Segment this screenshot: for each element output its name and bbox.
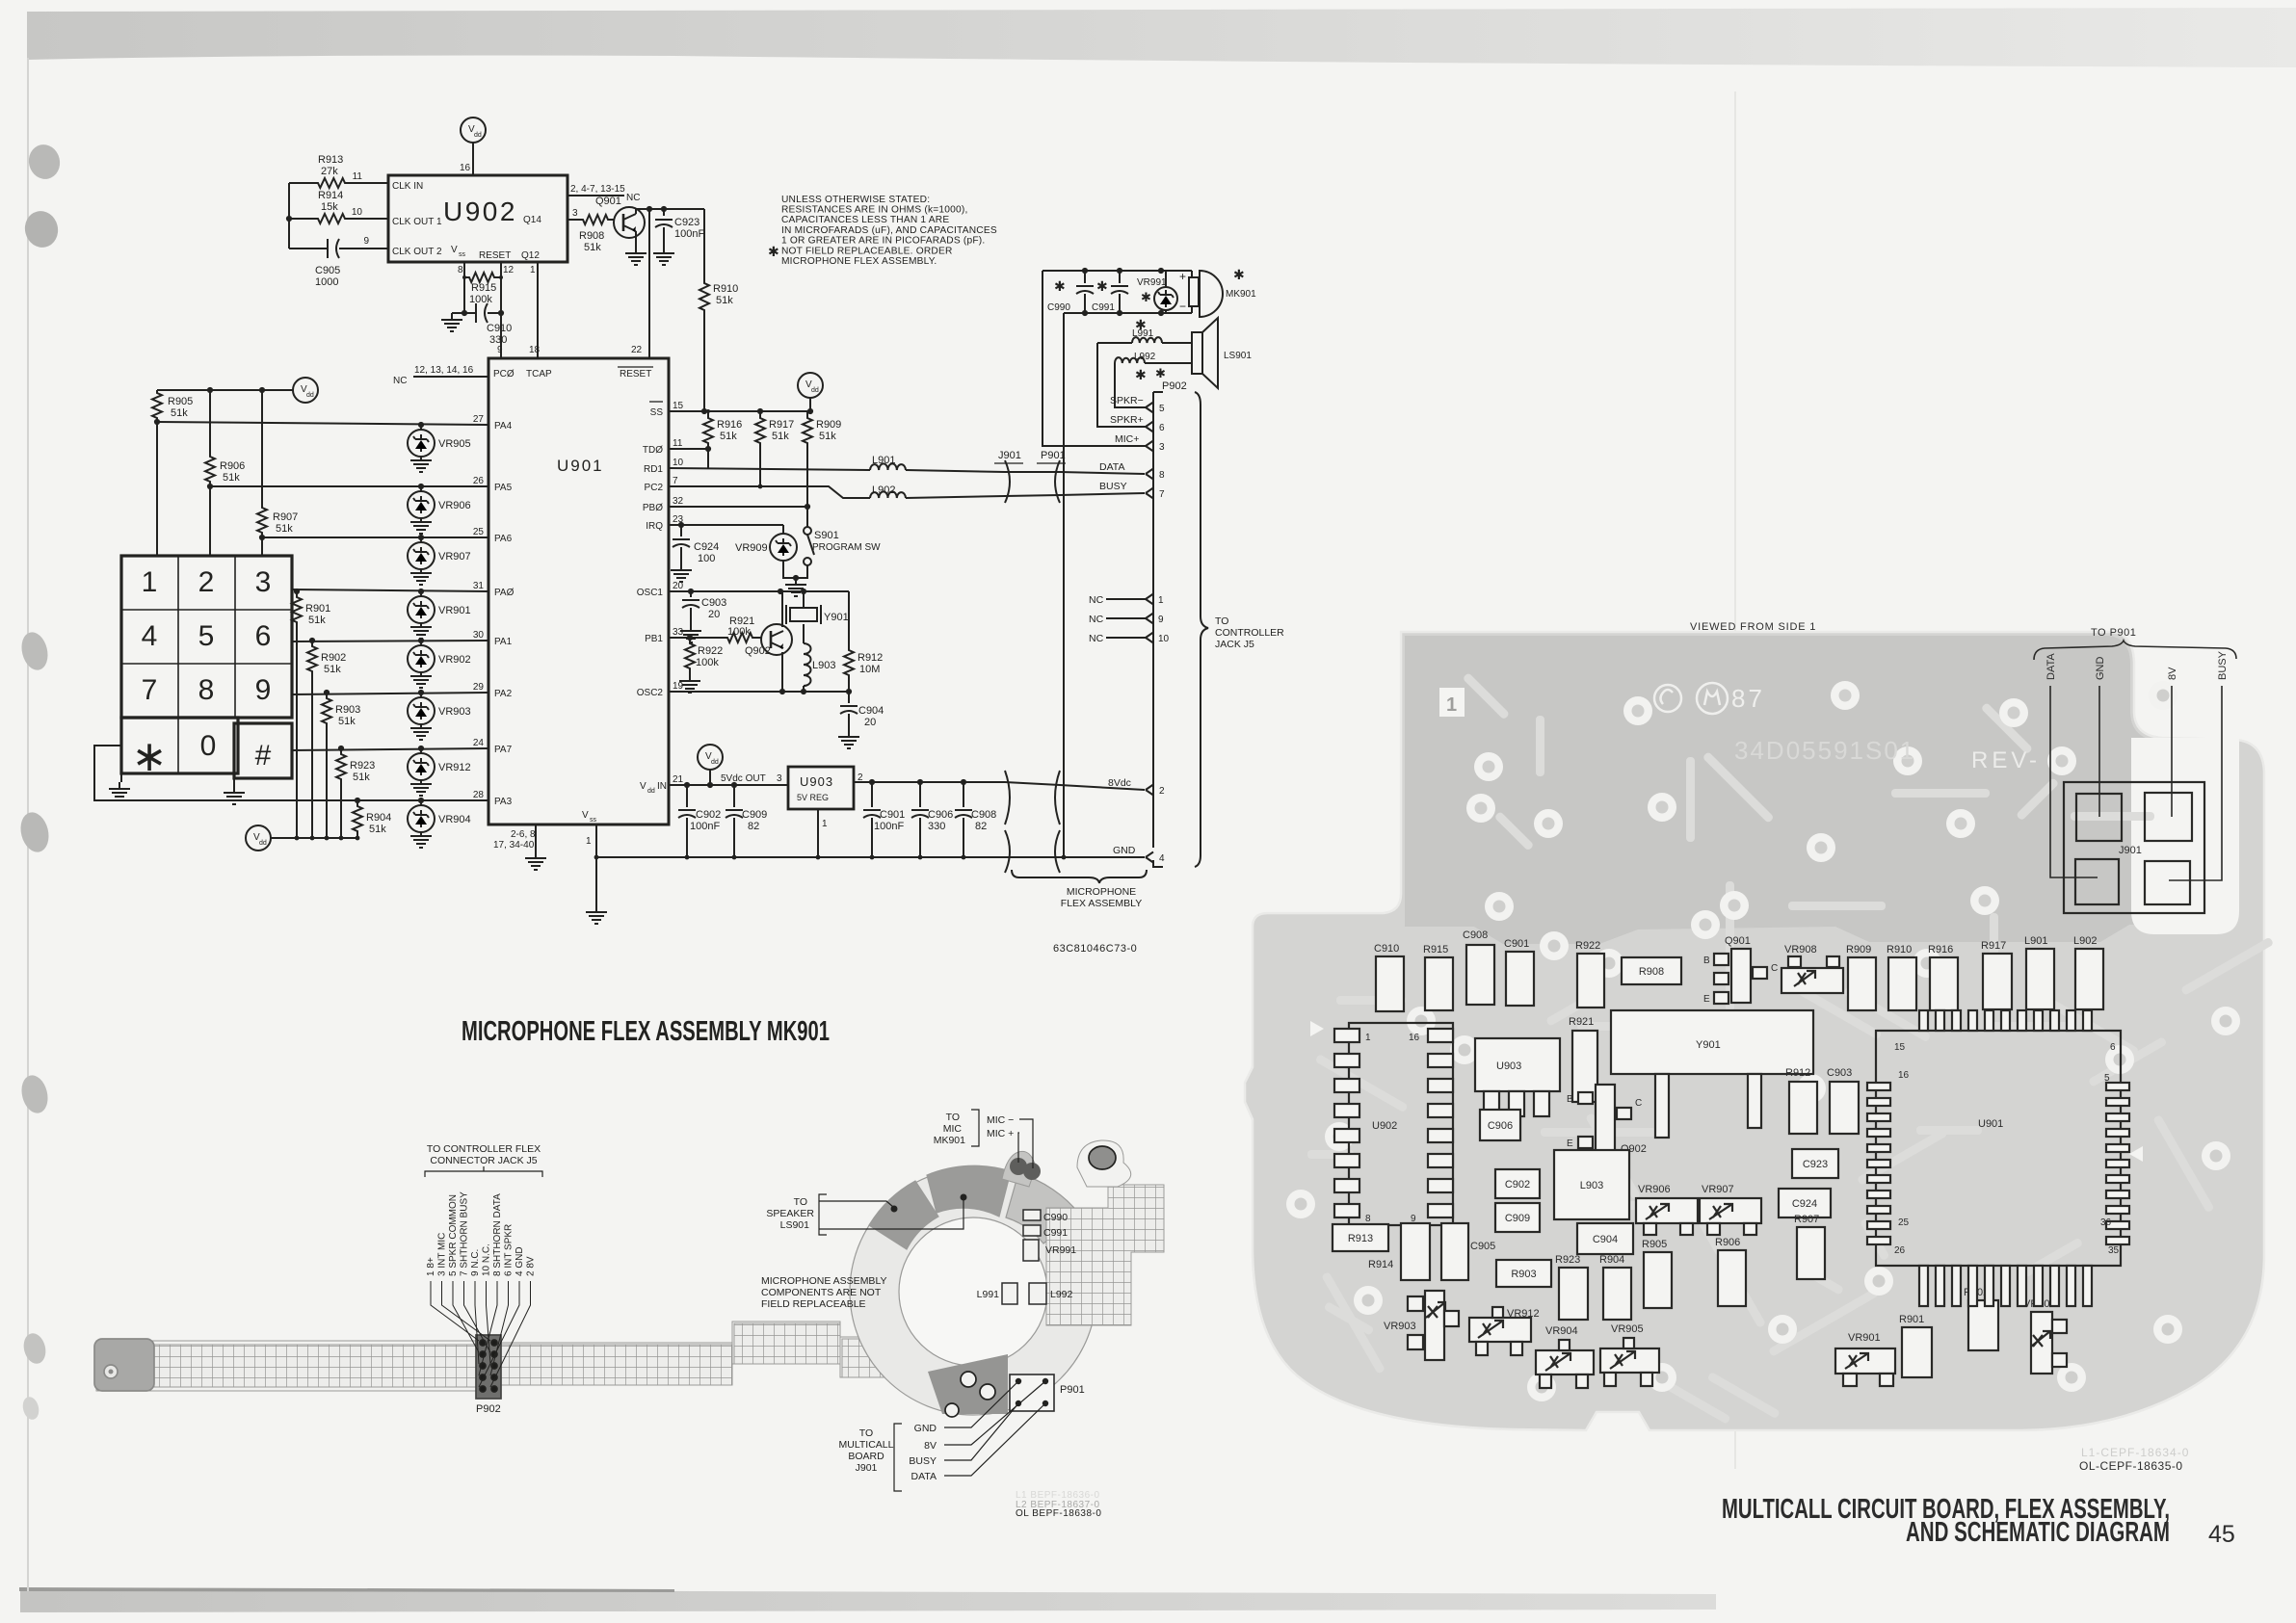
svg-text:15: 15 — [1894, 1042, 1906, 1053]
svg-text:P902: P902 — [1162, 380, 1187, 392]
PCB part R904 — [1603, 1268, 1631, 1320]
svg-text:51k: 51k — [353, 772, 370, 783]
svg-text:✱: ✱ — [1233, 267, 1245, 282]
svg-text:17, 34-40: 17, 34-40 — [493, 840, 535, 851]
svg-text:J901: J901 — [2119, 845, 2142, 856]
PCB part R915 — [1425, 957, 1453, 1010]
svg-text:R909: R909 — [1846, 944, 1871, 955]
svg-text:NOT FIELD REPLACEABLE. ORDER: NOT FIELD REPLACEABLE. ORDER — [781, 247, 953, 257]
svg-text:C902: C902 — [1505, 1179, 1530, 1191]
svg-text:51k: 51k — [819, 431, 836, 442]
svg-text:NC: NC — [393, 376, 407, 386]
svg-text:25: 25 — [473, 527, 485, 537]
PCB marker triangle left — [1310, 1021, 1324, 1036]
resistor R901 — [292, 591, 302, 838]
svg-text:C904: C904 — [1593, 1234, 1618, 1245]
PCB part R907 — [1797, 1227, 1825, 1279]
power Vdd keypad top — [293, 378, 318, 403]
svg-text:TDØ: TDØ — [643, 445, 663, 456]
svg-text:R913: R913 — [318, 154, 343, 166]
J901 white pocket — [2131, 738, 2239, 934]
svg-text:BUSY: BUSY — [1099, 481, 1127, 492]
svg-text:45: 45 — [2208, 1521, 2235, 1548]
svg-text:SPKR−: SPKR− — [1110, 395, 1144, 406]
svg-text:PC2: PC2 — [645, 483, 664, 493]
svg-text:CONTROLLER: CONTROLLER — [1215, 627, 1284, 639]
svg-text:✱: ✱ — [1054, 278, 1066, 294]
svg-text:0: 0 — [200, 730, 217, 762]
svg-text:C906: C906 — [1488, 1120, 1513, 1132]
svg-text:#: # — [255, 740, 272, 772]
PCB crystal Y901 footprint — [1611, 1010, 1813, 1074]
svg-text:L991: L991 — [977, 1289, 1000, 1300]
svg-text:ss: ss — [590, 817, 597, 824]
svg-text:VR903: VR903 — [1384, 1321, 1416, 1332]
svg-text:100: 100 — [698, 553, 715, 564]
svg-text:8V: 8V — [924, 1440, 937, 1452]
svg-text:E: E — [1703, 994, 1710, 1005]
ground at Q901 emitter — [625, 247, 647, 265]
key hash — [234, 723, 292, 778]
wire TD0 — [669, 448, 708, 450]
PCB part C905 — [1441, 1223, 1468, 1280]
svg-text:GND: GND — [2095, 657, 2106, 681]
PCB part VR903 — [1425, 1291, 1444, 1360]
PCB part C923 — [1792, 1149, 1838, 1178]
PCB part VR912 — [1469, 1318, 1531, 1342]
wire OSC1 — [669, 590, 849, 592]
svg-text:VR909: VR909 — [735, 542, 768, 554]
svg-text:MIC −: MIC − — [987, 1114, 1014, 1126]
svg-text:CONNECTOR JACK J5: CONNECTOR JACK J5 — [430, 1155, 537, 1166]
PCB part VR901 — [1835, 1348, 1895, 1374]
svg-text:PROGRAM SW: PROGRAM SW — [812, 542, 881, 553]
svg-text:51k: 51k — [584, 242, 601, 253]
wire SS — [669, 410, 810, 412]
PCB part R913 — [1333, 1224, 1388, 1251]
svg-text:5V REG: 5V REG — [797, 793, 829, 802]
svg-text:C910: C910 — [1374, 943, 1399, 955]
svg-text:PBØ: PBØ — [643, 503, 663, 513]
svg-text:PA6: PA6 — [494, 534, 513, 544]
PCB marker triangle right — [2129, 1146, 2143, 1162]
svg-text:dd: dd — [306, 392, 314, 399]
PCB part R910 — [1888, 957, 1916, 1010]
svg-text:L1-CEPF-18634-0: L1-CEPF-18634-0 — [2081, 1446, 2189, 1459]
diode VR902 — [420, 641, 422, 645]
svg-text:L992: L992 — [1050, 1289, 1073, 1300]
flex ribbon body — [96, 1322, 939, 1391]
svg-text:BOARD: BOARD — [848, 1451, 884, 1462]
diode VR912 — [420, 748, 422, 753]
svg-text:7: 7 — [1159, 489, 1165, 500]
svg-text:BUSY: BUSY — [909, 1455, 937, 1467]
svg-text:VR905: VR905 — [1611, 1323, 1644, 1335]
svg-text:∗: ∗ — [132, 733, 168, 780]
svg-text:PA4: PA4 — [494, 421, 513, 432]
svg-text:RESISTANCES ARE IN OHMS (k=100: RESISTANCES ARE IN OHMS (k=1000), — [781, 205, 968, 216]
wire RESET line from Q901 to U901 pin 22 — [648, 209, 650, 358]
svg-text:U902: U902 — [443, 196, 517, 226]
svg-text:MICROPHONE FLEX ASSEMBLY MK901: MICROPHONE FLEX ASSEMBLY MK901 — [462, 1016, 830, 1047]
svg-text:DATA: DATA — [2045, 653, 2057, 680]
svg-text:PA7: PA7 — [494, 745, 513, 755]
svg-text:10: 10 — [1158, 634, 1170, 644]
svg-text:OSC2: OSC2 — [637, 688, 664, 698]
ground at C910 — [452, 312, 464, 314]
svg-text:1: 1 — [586, 836, 592, 847]
svg-text:9: 9 — [497, 345, 503, 355]
wire PA1 — [292, 641, 488, 641]
svg-text:R910: R910 — [713, 283, 738, 295]
svg-text:PA1: PA1 — [494, 637, 513, 647]
svg-text:VR903: VR903 — [438, 706, 471, 718]
svg-text:R915: R915 — [1423, 944, 1448, 955]
ground below key hash — [233, 778, 235, 786]
svg-text:C908: C908 — [971, 809, 996, 821]
wire OSC2 — [669, 691, 849, 693]
diode VR901 — [420, 591, 422, 596]
wire mic plus node — [1042, 270, 1192, 272]
microphone MK901 — [1191, 271, 1193, 313]
svg-text:CAPACITANCES LESS THAN 1 ARE: CAPACITANCES LESS THAN 1 ARE — [781, 215, 949, 225]
svg-text:C923: C923 — [1803, 1159, 1828, 1170]
diode VR907 — [420, 537, 422, 542]
svg-text:dd: dd — [647, 788, 655, 795]
svg-text:VR904: VR904 — [438, 814, 471, 825]
svg-text:10M: 10M — [859, 664, 880, 675]
svg-text:S901: S901 — [814, 530, 839, 541]
svg-text:C909: C909 — [1505, 1213, 1530, 1224]
PCB part R917 — [1983, 954, 2012, 1009]
svg-text:6: 6 — [2110, 1042, 2116, 1053]
PCB part R906 — [1718, 1250, 1746, 1306]
svg-text:MICROPHONE: MICROPHONE — [1067, 886, 1136, 898]
svg-text:R901: R901 — [305, 603, 330, 615]
svg-text:VR906: VR906 — [438, 500, 471, 511]
keypad matrix — [121, 556, 292, 718]
svg-text:51k: 51k — [223, 472, 240, 484]
svg-text:V: V — [640, 781, 647, 792]
svg-text:330: 330 — [928, 821, 945, 832]
svg-text:CLK OUT 2: CLK OUT 2 — [392, 247, 442, 257]
svg-text:1: 1 — [822, 819, 828, 829]
svg-text:VR907: VR907 — [1702, 1184, 1734, 1195]
svg-text:C991: C991 — [1043, 1227, 1068, 1239]
svg-text:51k: 51k — [338, 716, 356, 727]
brace TO CONTROLLER JACK J5 — [1195, 392, 1208, 867]
svg-text:5: 5 — [198, 620, 215, 652]
svg-text:Q14: Q14 — [523, 215, 541, 225]
svg-text:1 OR GREATER ARE IN PICOFARADS: 1 OR GREATER ARE IN PICOFARADS (pF). — [781, 235, 985, 246]
PCB copyright Motorola 87 — [1654, 683, 1728, 714]
svg-text:VR908: VR908 — [1784, 944, 1817, 955]
wire IRQ — [669, 524, 783, 526]
PCB part R903 — [1496, 1260, 1551, 1287]
svg-text:100k: 100k — [469, 294, 492, 305]
PCB part C908 — [1466, 945, 1494, 1005]
svg-text:U901: U901 — [557, 457, 604, 475]
svg-text:C991: C991 — [1092, 302, 1115, 313]
svg-text:U903: U903 — [1496, 1060, 1521, 1072]
wire left bus of U902 — [288, 183, 290, 249]
svg-text:5Vdc OUT: 5Vdc OUT — [721, 773, 766, 784]
svg-text:ss: ss — [459, 251, 466, 258]
svg-text:IN MICROFARADS (uF), AND CAPAC: IN MICROFARADS (uF), AND CAPACITANCES — [781, 225, 997, 236]
svg-text:Q901: Q901 — [1725, 935, 1751, 947]
svg-text:1: 1 — [1365, 1033, 1371, 1043]
PCB part R916 — [1930, 957, 1958, 1010]
svg-text:LS901: LS901 — [780, 1219, 810, 1231]
svg-text:100nF: 100nF — [690, 821, 720, 832]
svg-text:C990: C990 — [1043, 1212, 1068, 1223]
svg-text:Q12: Q12 — [521, 250, 540, 261]
svg-text:DATA: DATA — [911, 1471, 937, 1482]
svg-text:VR904: VR904 — [1545, 1325, 1578, 1337]
resistor R904 — [353, 800, 362, 838]
PCB part VR905 — [1600, 1348, 1659, 1373]
wire 8Vdc output — [854, 782, 1145, 790]
PCB part VR907 — [1700, 1198, 1761, 1223]
wire Q901 collector node — [636, 208, 704, 210]
svg-text:R909: R909 — [816, 419, 841, 431]
svg-text:PA5: PA5 — [494, 483, 513, 493]
svg-text:MK901: MK901 — [934, 1135, 965, 1146]
PCB part R909 — [1848, 957, 1876, 1010]
svg-text:5 SPKR COMMON: 5 SPKR COMMON — [448, 1194, 459, 1276]
PCB part R902 — [1968, 1300, 1998, 1350]
PCB part L902 — [2075, 949, 2103, 1009]
svg-text:VR901: VR901 — [1848, 1332, 1881, 1344]
svg-text:10 N.C.: 10 N.C. — [482, 1243, 492, 1276]
svg-text:7: 7 — [142, 674, 158, 706]
svg-text:C924: C924 — [694, 541, 719, 553]
PCB IC U903 footprint — [1475, 1038, 1560, 1091]
svg-text:51k: 51k — [171, 407, 188, 419]
svg-text:J901: J901 — [856, 1462, 878, 1474]
connector P901 flex — [1010, 1374, 1054, 1411]
svg-text:32: 32 — [673, 496, 684, 507]
inductor L991 flex — [1002, 1283, 1017, 1304]
svg-text:SPEAKER: SPEAKER — [766, 1208, 814, 1219]
svg-text:✱: ✱ — [1135, 367, 1147, 382]
flex top right lobe — [1077, 1140, 1131, 1187]
svg-text:51k: 51k — [772, 431, 789, 442]
svg-text:R910: R910 — [1887, 944, 1912, 955]
svg-text:2-6, 8: 2-6, 8 — [511, 829, 536, 840]
svg-text:19: 19 — [673, 681, 684, 692]
svg-text:35: 35 — [2108, 1245, 2120, 1256]
svg-text:24: 24 — [473, 738, 485, 748]
PCB part L901 — [2026, 949, 2054, 1009]
svg-text:TO CONTROLLER FLEX: TO CONTROLLER FLEX — [427, 1143, 541, 1155]
svg-text:R915: R915 — [471, 282, 496, 294]
svg-text:8: 8 — [1159, 470, 1165, 481]
power Vdd above SS — [798, 373, 823, 398]
svg-text:DATA: DATA — [1099, 461, 1124, 473]
wire Vdd IN — [669, 784, 788, 786]
PCB connector J901 — [2064, 782, 2204, 913]
svg-text:B: B — [1703, 955, 1710, 966]
svg-text:dd: dd — [259, 840, 267, 847]
svg-text:1000: 1000 — [315, 276, 338, 288]
svg-text:29: 29 — [473, 682, 485, 693]
svg-text:3: 3 — [255, 566, 272, 598]
svg-text:C: C — [1771, 963, 1778, 974]
svg-text:C904: C904 — [858, 705, 884, 717]
svg-text:1: 1 — [530, 265, 536, 275]
svg-text:SS: SS — [650, 407, 664, 418]
svg-text:Y901: Y901 — [1696, 1039, 1721, 1051]
svg-text:SPKR+: SPKR+ — [1110, 414, 1144, 426]
PCB trace texture — [1307, 672, 2274, 1425]
flex speaker ring — [850, 1165, 1096, 1415]
PCB part R908 — [1622, 957, 1681, 984]
svg-text:51k: 51k — [369, 824, 386, 835]
svg-text:Y901: Y901 — [824, 612, 849, 623]
svg-text:9: 9 — [363, 236, 369, 247]
svg-text:8: 8 — [1365, 1214, 1371, 1224]
wire MIC+ to P902 pin 3 — [1042, 271, 1147, 446]
svg-text:PA3: PA3 — [494, 797, 513, 807]
svg-text:R912: R912 — [858, 652, 883, 664]
svg-text:C903: C903 — [1827, 1067, 1852, 1079]
svg-text:C990: C990 — [1047, 302, 1070, 313]
svg-text:VR991: VR991 — [1137, 277, 1167, 288]
svg-text:8 SHTHORN DATA: 8 SHTHORN DATA — [492, 1193, 503, 1276]
svg-text:11: 11 — [353, 171, 363, 182]
PCB part C901 — [1506, 952, 1534, 1006]
svg-text:R913: R913 — [1348, 1233, 1373, 1244]
svg-text:OL-CEPF-18635-0: OL-CEPF-18635-0 — [2079, 1459, 2183, 1473]
svg-text:16: 16 — [460, 163, 471, 173]
svg-text:3: 3 — [777, 773, 782, 784]
wire U902 pin12 to U901 pin 9 — [500, 313, 502, 358]
svg-text:VR901: VR901 — [438, 605, 471, 616]
svg-text:P901: P901 — [1041, 450, 1066, 461]
svg-text:V: V — [582, 810, 589, 821]
svg-text:J901: J901 — [998, 450, 1021, 461]
svg-text:V: V — [451, 245, 458, 255]
svg-text:R916: R916 — [717, 419, 742, 431]
svg-text:E: E — [1567, 1139, 1573, 1149]
svg-text:12: 12 — [503, 265, 515, 275]
svg-text:R922: R922 — [698, 645, 723, 657]
svg-text:NC: NC — [1089, 614, 1104, 625]
svg-text:36: 36 — [2100, 1217, 2112, 1228]
svg-text:B: B — [1567, 1094, 1573, 1105]
svg-text:16: 16 — [1409, 1033, 1420, 1043]
svg-text:R916: R916 — [1928, 944, 1953, 955]
svg-text:C924: C924 — [1792, 1198, 1817, 1210]
svg-text:12, 13, 14, 16: 12, 13, 14, 16 — [414, 365, 474, 376]
svg-text:R917: R917 — [769, 419, 794, 431]
PCB part C910 — [1376, 956, 1404, 1011]
svg-text:1: 1 — [142, 566, 158, 598]
capacitor C991 flex — [1023, 1225, 1041, 1236]
svg-text:R914: R914 — [318, 190, 343, 201]
PCB part VR904 — [1536, 1350, 1594, 1374]
svg-text:MIC +: MIC + — [987, 1128, 1014, 1139]
svg-text:R904: R904 — [1599, 1254, 1624, 1266]
svg-text:27k: 27k — [321, 166, 338, 177]
wire PA5 — [210, 485, 488, 487]
svg-text:Q901: Q901 — [595, 196, 621, 207]
voltage regulator U903 — [788, 767, 854, 809]
svg-text:16: 16 — [1898, 1070, 1910, 1081]
svg-text:5: 5 — [2104, 1073, 2110, 1084]
svg-text:63C81046C73-0: 63C81046C73-0 — [1053, 943, 1137, 955]
svg-text:6: 6 — [255, 620, 272, 652]
svg-text:dd: dd — [474, 132, 482, 139]
svg-text:UNLESS OTHERWISE STATED:: UNLESS OTHERWISE STATED: — [781, 195, 930, 205]
svg-text:JACK J5: JACK J5 — [1215, 639, 1254, 650]
IC U902 — [388, 175, 567, 262]
svg-text:R907: R907 — [1794, 1214, 1819, 1225]
svg-text:2, 4-7, 13-15: 2, 4-7, 13-15 — [570, 184, 625, 195]
speaker LS901 — [1192, 332, 1202, 374]
svg-text:2: 2 — [198, 566, 215, 598]
svg-text:1: 1 — [1158, 595, 1164, 606]
ground at C923 — [653, 247, 674, 265]
svg-text:CLK OUT 1: CLK OUT 1 — [392, 217, 442, 227]
PCB part R914 — [1401, 1223, 1430, 1280]
svg-text:R923: R923 — [350, 760, 375, 772]
PCB part L903 — [1554, 1150, 1629, 1219]
svg-text:R923: R923 — [1555, 1254, 1580, 1266]
svg-text:15: 15 — [673, 401, 684, 411]
PCB side 1 marker — [1439, 688, 1465, 717]
svg-text:P901: P901 — [1060, 1384, 1085, 1396]
svg-text:100nF: 100nF — [674, 228, 704, 240]
svg-text:CLK IN: CLK IN — [392, 181, 423, 192]
svg-text:R917: R917 — [1981, 940, 2006, 952]
svg-text:MIC: MIC — [943, 1123, 963, 1135]
svg-text:GND: GND — [1113, 845, 1136, 856]
svg-text:TO: TO — [794, 1196, 807, 1208]
svg-text:OSC1: OSC1 — [637, 588, 664, 598]
svg-text:C903: C903 — [701, 597, 726, 609]
svg-text:C: C — [1635, 1098, 1642, 1109]
svg-text:11: 11 — [673, 438, 683, 449]
svg-text:8: 8 — [458, 265, 463, 275]
svg-text:TCAP: TCAP — [526, 369, 552, 380]
svg-text:GND: GND — [914, 1423, 937, 1434]
svg-text:FIELD REPLACEABLE: FIELD REPLACEABLE — [761, 1298, 866, 1310]
svg-text:R922: R922 — [1575, 940, 1600, 952]
svg-text:3 INT MIC: 3 INT MIC — [437, 1233, 448, 1276]
resistor R903 — [322, 693, 331, 838]
svg-text:82: 82 — [975, 821, 987, 832]
svg-text:100nF: 100nF — [874, 821, 904, 832]
svg-text:C906: C906 — [928, 809, 953, 821]
svg-text:R903: R903 — [1511, 1269, 1536, 1280]
svg-text:82: 82 — [748, 821, 759, 832]
svg-text:34D05591S01: 34D05591S01 — [1734, 736, 1915, 765]
svg-text:R906: R906 — [1715, 1237, 1740, 1248]
svg-text:20: 20 — [864, 717, 876, 728]
svg-text:3: 3 — [1159, 442, 1165, 453]
svg-text:33: 33 — [673, 627, 684, 638]
PCB part C904 — [1577, 1223, 1633, 1254]
svg-text:U903: U903 — [800, 774, 833, 789]
svg-text:R908: R908 — [1639, 966, 1664, 978]
svg-text:TO: TO — [946, 1112, 960, 1123]
diode VR991 flex — [1023, 1240, 1039, 1261]
svg-text:REV-: REV- — [1971, 747, 2041, 773]
wire PB0 to program switch — [669, 507, 807, 527]
brace MICROPHONE FLEX ASSEMBLY — [1012, 870, 1147, 883]
